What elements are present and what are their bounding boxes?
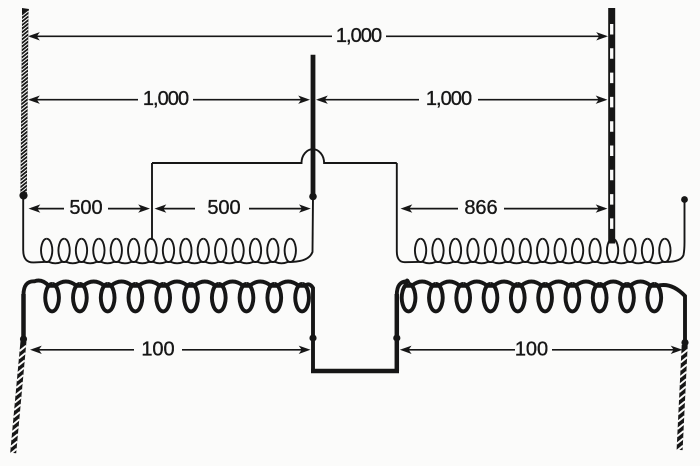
antenna left: twisted-rope vertical wire xyxy=(22,8,29,14)
junction dot far-right lead top xyxy=(681,196,688,203)
junction dot lower-left rope top xyxy=(20,335,27,342)
dimension arrow 500 middle xyxy=(155,204,311,212)
dimension arrow 100 right xyxy=(400,346,683,354)
dimension arrow 100 left xyxy=(30,346,311,354)
svg-text:100: 100 xyxy=(515,338,548,360)
link wire left tap vertical xyxy=(151,163,153,240)
bottom bus wire xyxy=(311,369,399,373)
junction dot mast bottom xyxy=(309,193,317,201)
inductor L4: lower-right coil xyxy=(402,284,661,311)
mast: thick center vertical lead xyxy=(311,55,316,197)
dimension arrow 866 xyxy=(401,204,608,212)
link wire: horizontal jumper with bump over mast xyxy=(152,149,397,163)
junction dot lower-left inner xyxy=(309,334,316,341)
ground lead right: twisted-rope wire xyxy=(676,345,687,451)
svg-text:1,000: 1,000 xyxy=(336,25,382,47)
junction dot lower-right inner xyxy=(393,334,400,341)
dimension arrow 1,000 top row xyxy=(28,32,608,40)
svg-text:100: 100 xyxy=(141,338,174,360)
dimension arrow 500 left xyxy=(29,204,151,212)
inductor L2: upper-right coil xyxy=(415,239,671,262)
antenna right: dashed vertical mast xyxy=(608,8,615,244)
svg-text:866: 866 xyxy=(464,197,497,219)
dimension arrow 1,000 row2 right xyxy=(316,96,608,104)
svg-text:1,000: 1,000 xyxy=(426,88,472,110)
junction dot left antenna bottom xyxy=(19,191,27,199)
inductor L3: lower-left coil xyxy=(45,284,309,311)
ground lead left: twisted-rope wire xyxy=(10,341,26,454)
svg-text:1,000: 1,000 xyxy=(143,88,189,110)
svg-text:500: 500 xyxy=(207,197,240,219)
dimension arrow 1,000 row2 left xyxy=(28,96,310,104)
inductor L1: upper-left coil xyxy=(41,239,296,262)
junction dot lower-right rope top xyxy=(681,339,688,346)
svg-text:500: 500 xyxy=(69,197,102,219)
